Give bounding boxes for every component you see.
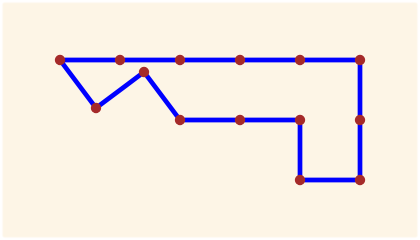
node P7 xyxy=(355,115,365,125)
node P14 xyxy=(91,103,101,113)
node P11 xyxy=(235,115,245,125)
node P12 xyxy=(175,115,185,125)
node P10 xyxy=(295,115,305,125)
wire middle horizontal xyxy=(180,118,300,123)
node P9 xyxy=(295,175,305,185)
node P2 xyxy=(115,55,125,65)
wire diagonal down xyxy=(96,72,144,108)
wire diagonal to start xyxy=(60,60,96,108)
node P8 xyxy=(355,175,365,185)
wire diagonal up xyxy=(144,72,180,120)
node P4 xyxy=(235,55,245,65)
node P5 xyxy=(295,55,305,65)
wire bottom edge xyxy=(300,178,360,183)
wire top edge xyxy=(60,58,360,63)
wire notch vertical xyxy=(298,120,303,180)
wire right edge xyxy=(358,60,363,180)
node P13 xyxy=(139,67,149,77)
node P3 xyxy=(175,55,185,65)
node P6 xyxy=(355,55,365,65)
node P1 xyxy=(55,55,65,65)
